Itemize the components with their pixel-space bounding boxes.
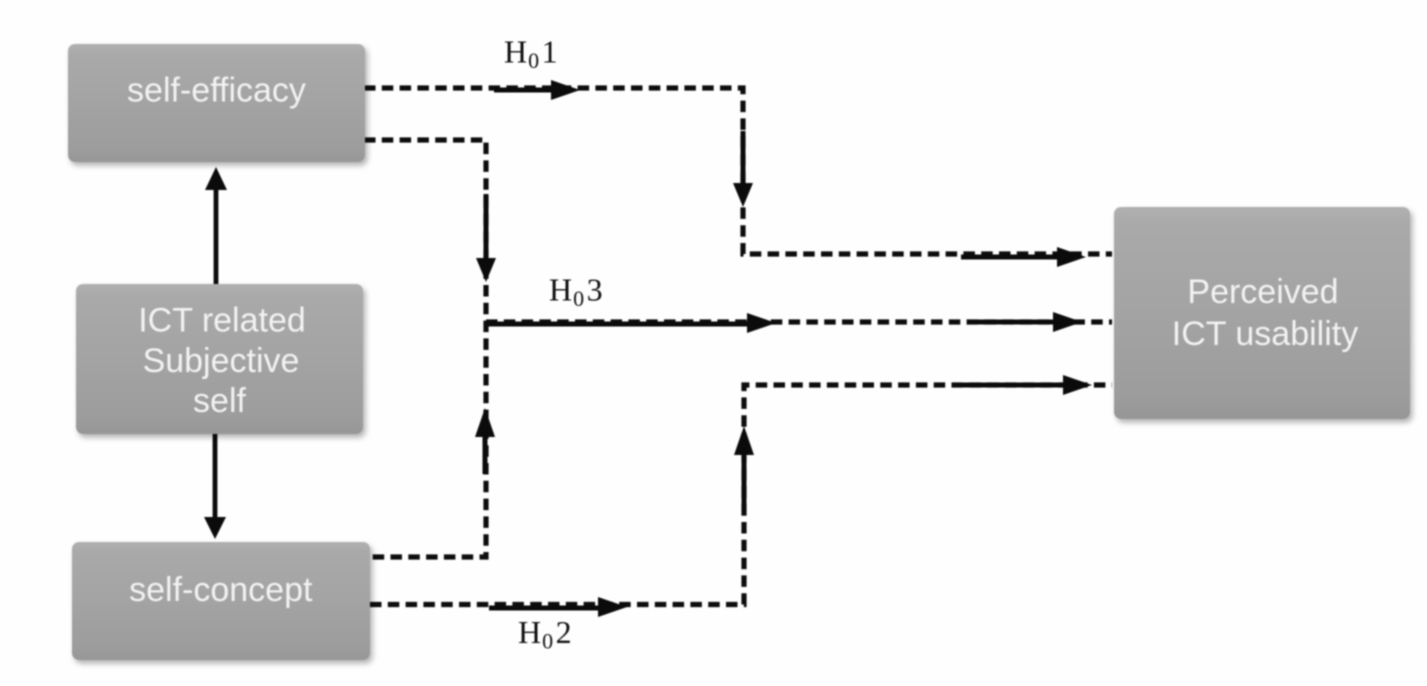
svg-text:self-concept: self-concept <box>129 571 313 609</box>
svg-text:self-efficacy: self-efficacy <box>127 72 306 110</box>
svg-text:ICT usability: ICT usability <box>1172 315 1358 353</box>
svg-text:Subjective: Subjective <box>143 342 300 380</box>
svg-text:Perceived: Perceived <box>1187 273 1338 311</box>
svg-text:self: self <box>193 382 246 420</box>
svg-text:ICT related: ICT related <box>138 302 306 340</box>
